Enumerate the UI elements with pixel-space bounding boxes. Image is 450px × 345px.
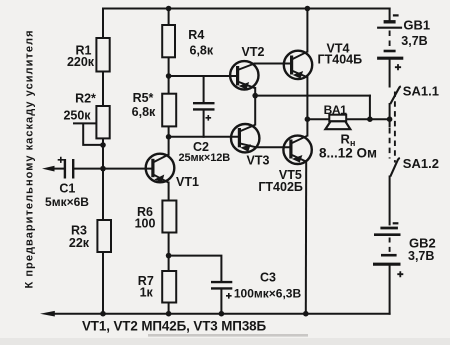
wire VT4 collector to rail — [306, 9, 308, 52]
switch SA1.1 blade — [390, 86, 401, 104]
arrow output to preamp (C1 line) — [42, 166, 55, 172]
resistor R7 — [162, 271, 176, 303]
wire GB1 top lead — [389, 9, 391, 21]
wire VT2 collector to VT4 base — [255, 63, 292, 65]
svg-text:8...12 Ом: 8...12 Ом — [319, 146, 377, 161]
svg-text:C1: C1 — [59, 182, 75, 196]
wire bottom rail — [54, 313, 390, 315]
svg-text:VT2: VT2 — [242, 45, 265, 59]
resistor R4 — [162, 25, 175, 57]
svg-text:ГТ402Б: ГТ402Б — [258, 180, 303, 194]
svg-text:R2*: R2* — [75, 92, 96, 106]
switch linkage dashed lines — [389, 128, 391, 159]
wire corner down to speaker line — [369, 96, 371, 120]
wire node to VT3 base — [169, 136, 240, 138]
svg-text:3,7В: 3,7В — [401, 34, 427, 48]
transistor VT4 — [284, 51, 312, 79]
svg-text:SA1.2: SA1.2 — [403, 156, 439, 171]
wire R5 top lead — [168, 76, 170, 94]
transistor VT2 — [230, 61, 258, 89]
battery GB1 — [377, 15, 403, 70]
scan artifact bottom band — [148, 334, 308, 337]
svg-text:ГТ404Б: ГТ404Б — [318, 52, 363, 66]
svg-text:R4: R4 — [188, 28, 204, 42]
wire speaker line — [307, 118, 389, 120]
svg-text:VT3: VT3 — [247, 154, 270, 168]
battery GB2 — [373, 223, 403, 277]
svg-text:100: 100 — [135, 217, 156, 231]
wire C3 bottom lead — [220, 289, 222, 313]
svg-text:К предварительному каскаду уси: К предварительному каскаду усилителя — [23, 31, 35, 289]
capacitor C1 — [58, 157, 73, 179]
svg-text:220к: 220к — [67, 55, 95, 69]
wire C1 input line — [53, 168, 153, 170]
wire R4 bottom lead — [168, 57, 170, 76]
wire R4 to VT2 base — [169, 75, 238, 77]
wire SA1.1 bottom to node — [389, 104, 391, 127]
capacitor C2 — [193, 103, 215, 120]
svg-text:6,8к: 6,8к — [190, 44, 214, 58]
wire R7 bottom lead — [168, 303, 170, 314]
resistor R3 — [97, 220, 111, 252]
svg-text:100мк×6,3В: 100мк×6,3В — [234, 286, 302, 300]
wire R1 top lead — [102, 9, 104, 39]
wire VT5 emitter to bottom rail — [305, 162, 307, 314]
transistor VT3 — [231, 124, 259, 152]
wire GB1 to SA1.1 — [389, 60, 391, 87]
switch SA1.2 blade — [390, 158, 400, 177]
wire R2 wiper tap — [74, 123, 103, 144]
resistor R2 — [96, 106, 109, 138]
wire R2 bottom to R3 — [102, 138, 104, 220]
wire R5 bottom lead — [168, 126, 170, 136]
svg-text:3,7В: 3,7В — [408, 249, 434, 263]
wire VT2 emitter to VT3 collector — [254, 88, 256, 125]
svg-text:R: R — [341, 131, 351, 146]
resistor R6 — [162, 201, 176, 233]
resistor R1 — [96, 38, 109, 72]
wire top rail — [103, 8, 390, 10]
wire SA1.2 bottom to GB2 — [389, 177, 391, 225]
transistor VT1 — [146, 154, 175, 183]
wire VT4 emitter down — [306, 77, 308, 119]
svg-text:5мк×6В: 5мк×6В — [45, 195, 89, 209]
svg-text:25мк×12В: 25мк×12В — [178, 152, 230, 164]
svg-text:22к: 22к — [69, 236, 90, 250]
wire R6R7 node to C3 — [169, 256, 222, 282]
wire R6 bottom lead — [168, 233, 170, 256]
transistor VT5 — [283, 136, 311, 164]
speaker BA1 — [325, 115, 350, 130]
wire GB2 bottom to rail — [389, 266, 391, 314]
svg-text:VT1: VT1 — [176, 175, 199, 189]
wire VT1 collector lead — [168, 137, 170, 155]
wire VT1 emitter lead — [168, 183, 170, 201]
wire R1-R2 lead — [102, 72, 104, 107]
node junction dots — [100, 6, 392, 317]
wire R4 top lead — [168, 9, 170, 26]
wire R7 top lead — [168, 256, 170, 271]
wire R3 bottom — [102, 252, 104, 314]
svg-text:VT1, VT2 МП42Б, VT3 МП38Б: VT1, VT2 МП42Б, VT3 МП38Б — [82, 318, 267, 333]
resistor R5 — [162, 94, 176, 127]
svg-text:250к: 250к — [63, 109, 91, 123]
wire output node to corner — [255, 95, 370, 97]
wire VT5 collector up — [306, 119, 308, 135]
svg-text:C3: C3 — [260, 271, 276, 285]
svg-text:R5*: R5* — [133, 91, 154, 105]
arrow bottom rail left — [40, 311, 55, 317]
wire C2 top lead — [203, 76, 205, 102]
svg-text:SA1.1: SA1.1 — [403, 83, 439, 98]
svg-text:1к: 1к — [140, 286, 154, 300]
svg-text:GB1: GB1 — [403, 17, 430, 32]
capacitor C3 — [211, 282, 232, 299]
svg-text:BA1: BA1 — [324, 103, 348, 117]
wire C2 bottom lead — [203, 110, 205, 137]
svg-text:6,8к: 6,8к — [132, 105, 156, 119]
wire VT3 emitter to VT5 base — [257, 146, 291, 148]
